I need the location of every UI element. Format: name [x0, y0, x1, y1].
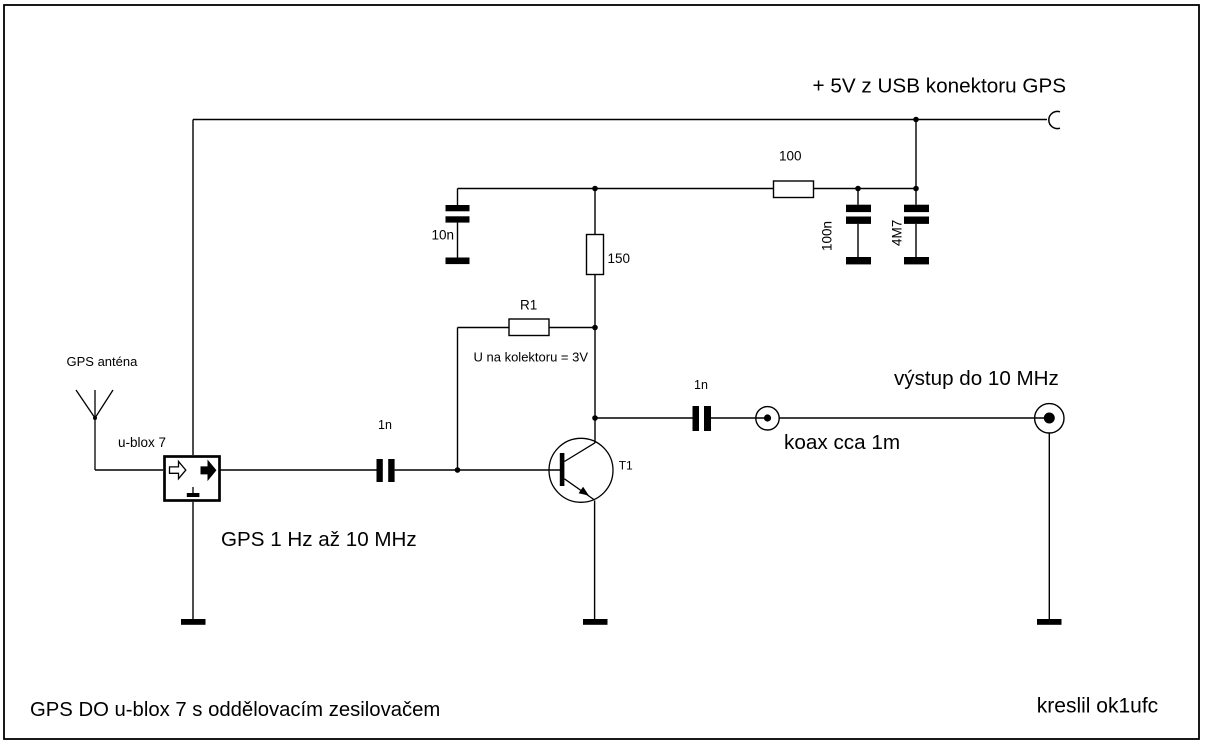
svg-text:GPS 1 Hz až 10 MHz: GPS 1 Hz až 10 MHz — [221, 528, 417, 551]
module u-blox 7 — [165, 457, 220, 501]
capacitor 1n (output coupling) — [693, 406, 712, 431]
svg-text:100n: 100n — [820, 221, 835, 251]
node collector output junction — [592, 415, 598, 421]
wire middle rail y188 — [458, 188, 774, 190]
svg-text:výstup do 10 MHz: výstup do 10 MHz — [894, 367, 1059, 390]
connector +5V USB pin — [1049, 111, 1060, 128]
svg-text:u-blox 7: u-blox 7 — [118, 435, 166, 450]
svg-text:kreslil ok1ufc: kreslil ok1ufc — [1037, 695, 1158, 718]
node junction 150 rail — [592, 186, 598, 192]
antenna GPS — [76, 390, 113, 470]
svg-text:T1: T1 — [619, 458, 633, 472]
node R1 / collector rail junction — [592, 325, 598, 331]
wire R1 branch vertical — [457, 328, 459, 471]
ground under output connector — [1037, 619, 1062, 625]
transistor T1 — [549, 438, 613, 502]
capacitor 100n — [846, 189, 871, 265]
wire top +5V rail — [193, 119, 1047, 121]
svg-text:koax cca 1m: koax cca 1m — [784, 431, 900, 454]
svg-text:GPS DO u-blox 7 s oddělovacím: GPS DO u-blox 7 s oddělovacím zesilovače… — [30, 699, 440, 721]
wire left vertical rail (above u-blox) — [192, 120, 194, 456]
resistor 150 — [587, 235, 604, 275]
node junction 4M7 — [913, 186, 919, 192]
svg-text:GPS anténa: GPS anténa — [67, 354, 139, 369]
ground under emitter — [583, 619, 608, 625]
svg-text:U na kolektoru = 3V: U na kolektoru = 3V — [474, 350, 589, 365]
ground under u-blox — [181, 619, 206, 625]
svg-text:1n: 1n — [378, 418, 392, 432]
connector output 10 MHz — [1035, 404, 1064, 433]
node junction top rail / 4M7 branch — [913, 117, 919, 123]
svg-text:R1: R1 — [520, 298, 537, 313]
svg-text:4M7: 4M7 — [890, 220, 905, 246]
capacitor 1n (base coupling) — [377, 459, 395, 482]
capacitor 4M7 — [904, 189, 929, 265]
svg-text:100: 100 — [779, 149, 802, 164]
wire 150 to collector node — [594, 275, 596, 444]
wire antenna to u-blox — [95, 469, 163, 471]
svg-text:150: 150 — [608, 251, 631, 266]
wire 4M7 node to +5V rail — [915, 120, 917, 189]
resistor 100 — [774, 181, 917, 198]
svg-text:10n: 10n — [431, 228, 454, 243]
capacitor 10n — [446, 189, 470, 265]
wire collector to output cap — [595, 417, 693, 419]
wire emitter down — [594, 501, 596, 620]
wire cap to koax connector — [711, 417, 768, 419]
wire C 1n to base — [395, 469, 560, 471]
node base / R1 junction — [455, 467, 461, 473]
wire koax cable — [779, 417, 1049, 419]
svg-text:1n: 1n — [694, 378, 708, 392]
wire output connector to ground — [1048, 433, 1050, 619]
wire left vertical rail (below u-blox) — [192, 502, 194, 619]
connector koax (near end) — [756, 407, 779, 430]
svg-text:+ 5V z USB konektoru GPS: + 5V z USB konektoru GPS — [813, 75, 1067, 98]
wire 150 rail top — [594, 189, 596, 235]
wire u-blox output to C 1n — [220, 469, 377, 471]
resistor R1 — [458, 319, 596, 336]
node junction 100n — [855, 186, 861, 192]
